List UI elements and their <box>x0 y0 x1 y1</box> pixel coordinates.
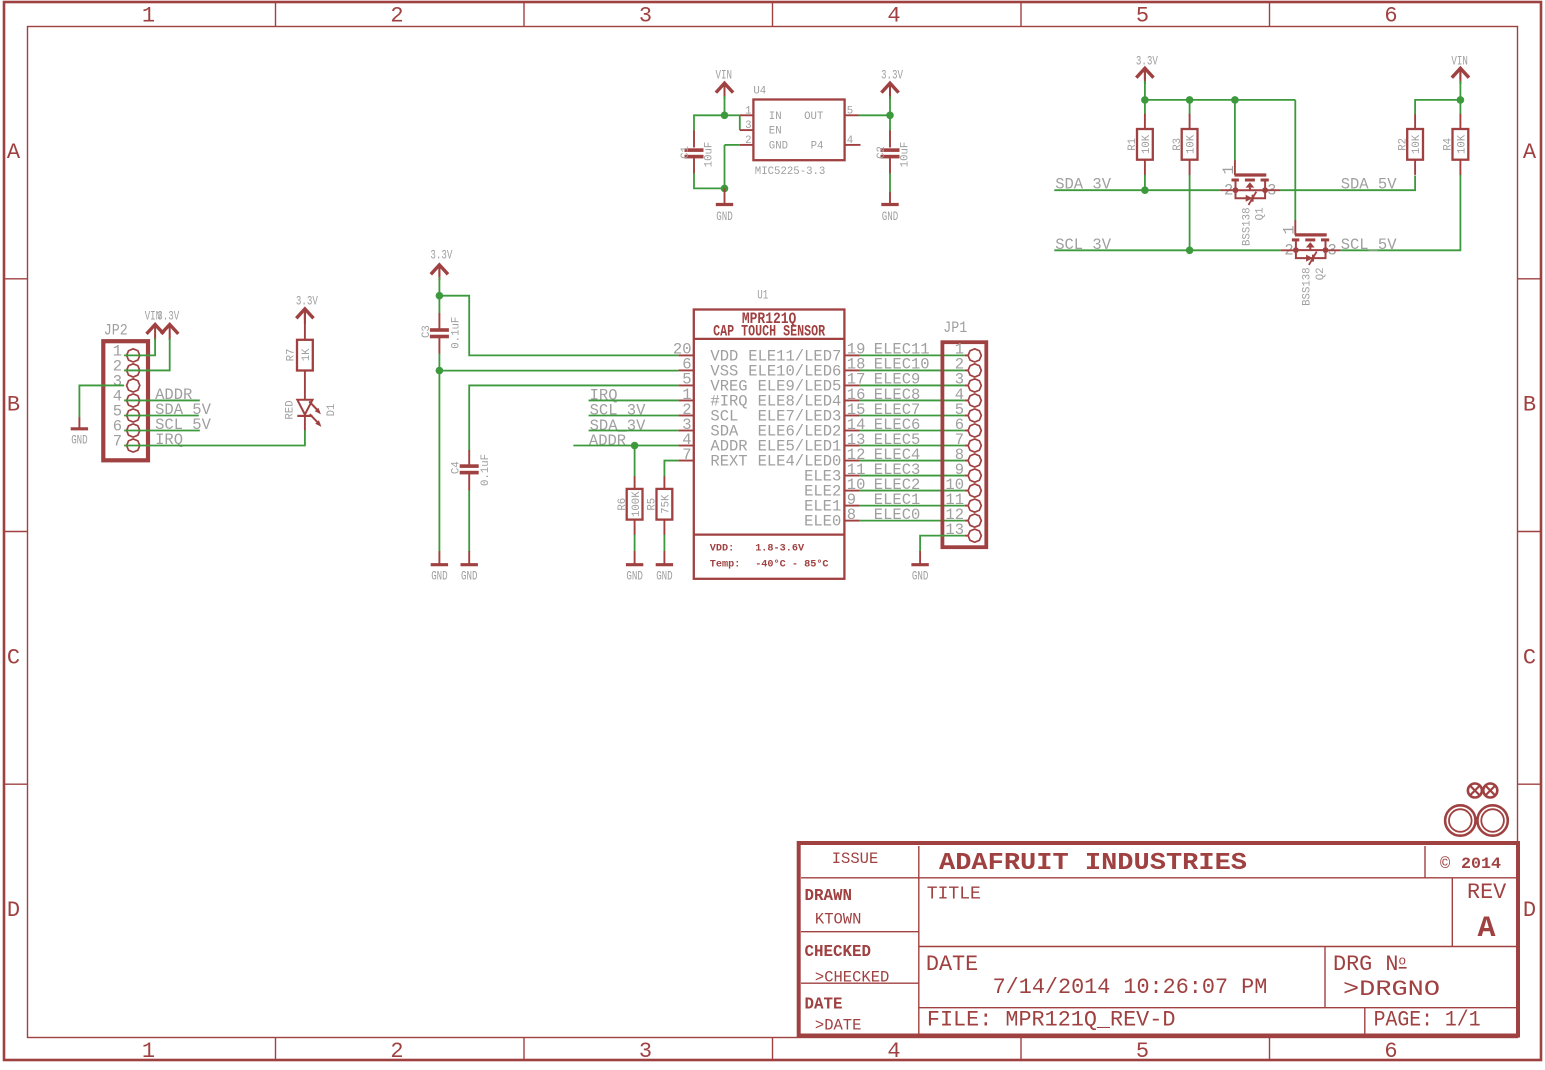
capacitor C3 pin top <box>438 313 440 329</box>
svg-text:A: A <box>1523 140 1537 165</box>
svg-text:1: 1 <box>745 105 751 117</box>
LED D1 cathode bar <box>297 415 312 417</box>
svg-text:JP2: JP2 <box>104 322 128 340</box>
JP2 pin 6 pad <box>127 424 140 437</box>
resistor R6 pin top <box>634 476 636 489</box>
JP1 pin 12 pad <box>968 514 981 527</box>
power symbol 3.3V (above C2) <box>881 83 898 92</box>
JP1 pin 8 pad <box>968 454 981 467</box>
transistor Q1 <box>1235 173 1267 176</box>
svg-text:7/14/2014 10:26:07 PM: 7/14/2014 10:26:07 PM <box>993 975 1268 1000</box>
R7 pin bottom / D1 anode lead <box>304 371 306 401</box>
svg-text:3.3V: 3.3V <box>430 249 452 263</box>
svg-text:1: 1 <box>142 1039 155 1064</box>
JP1 pin 5 lead <box>965 414 969 416</box>
svg-text:OUT: OUT <box>804 111 824 123</box>
resistor R3 <box>1182 129 1198 160</box>
svg-text:SCL_5V: SCL_5V <box>1341 236 1398 254</box>
wire SCL_3V <box>1054 249 1280 251</box>
JP1 pin 9 pad <box>968 469 981 482</box>
svg-text:10K: 10K <box>1456 134 1468 154</box>
ground pin (R6) <box>634 551 636 564</box>
svg-text:R2: R2 <box>1397 138 1409 151</box>
wire ELEC0 <box>860 520 965 522</box>
svg-text:ISSUE: ISSUE <box>832 850 879 868</box>
node 3.3V bus at Q1 gate <box>1231 96 1239 104</box>
resistor R1 <box>1137 129 1153 160</box>
svg-text:R5: R5 <box>647 498 659 511</box>
wire 3.3V arrow to bus <box>1144 81 1146 100</box>
wire R5 to ground <box>663 535 665 552</box>
U1 pin 17 lead (right) <box>844 384 859 386</box>
svg-text:1: 1 <box>1220 165 1238 174</box>
svg-text:ADAFRUIT INDUSTRIES: ADAFRUIT INDUSTRIES <box>939 850 1247 877</box>
wire R4 to SCL_5V <box>1340 175 1460 250</box>
svg-text:IN: IN <box>769 111 782 123</box>
svg-text:GND: GND <box>656 570 673 584</box>
svg-text:10K: 10K <box>1186 134 1198 154</box>
svg-text:3.3V: 3.3V <box>1136 54 1158 68</box>
wire ELEC7 <box>860 414 965 416</box>
node 3.3V bus at R3 <box>1186 96 1194 104</box>
wire JP2 pin2 to 3.3V <box>124 338 170 370</box>
svg-text:10uF: 10uF <box>704 142 716 168</box>
svg-text:4: 4 <box>887 1039 900 1064</box>
resistor R5 pin top <box>663 476 665 489</box>
Q1 source lead <box>1220 189 1235 191</box>
JP1 pin 8 lead <box>965 460 969 462</box>
capacitor C1 pin bottom <box>693 158 695 174</box>
wire U1 VREG pin 5 to C4 <box>469 385 678 450</box>
svg-text:10uF: 10uF <box>900 142 912 168</box>
power symbol 3.3V (R7) <box>296 309 313 318</box>
wire R1 to SDA_3V <box>1144 175 1146 190</box>
resistor R2 pin top <box>1414 114 1416 130</box>
U4 pin 4 lead <box>845 144 861 146</box>
JP1 pin 10 pad <box>968 484 981 497</box>
svg-text:Q1: Q1 <box>1255 208 1267 221</box>
wire R3 to SCL_3V <box>1189 175 1191 250</box>
svg-text:-40°C - 85°C: -40°C - 85°C <box>755 559 828 571</box>
svg-text:C3: C3 <box>421 325 433 338</box>
wire C1 bottom to GND node <box>694 173 725 188</box>
svg-text:3.3V: 3.3V <box>157 309 179 323</box>
U1 pin 4 lead (left) <box>679 445 694 447</box>
svg-text:10K: 10K <box>1411 134 1423 154</box>
U1 pin 10 lead (right) <box>844 490 859 492</box>
U1 pin 14 lead (right) <box>844 430 859 432</box>
U1 header divider <box>694 338 845 340</box>
svg-text:CHECKED: CHECKED <box>805 943 872 962</box>
svg-text:5: 5 <box>1136 1039 1149 1064</box>
svg-text:2: 2 <box>745 135 751 147</box>
svg-text:75K: 75K <box>661 494 673 514</box>
wire ELEC2 <box>860 490 965 492</box>
svg-text:GND: GND <box>461 570 478 584</box>
capacitor C3 pin bottom <box>438 338 440 354</box>
wire U1 REXT pin 7 to R5 <box>664 461 678 477</box>
svg-text:CAP TOUCH SENSOR: CAP TOUCH SENSOR <box>713 323 826 341</box>
svg-text:7: 7 <box>113 433 122 451</box>
svg-text:P4: P4 <box>811 140 824 152</box>
U1 pin 18 lead (right) <box>844 369 859 371</box>
svg-text:ELEC0: ELEC0 <box>874 506 921 524</box>
svg-text:DATE: DATE <box>805 995 843 1014</box>
resistor R5 pin bottom <box>663 520 665 536</box>
U1 pin 7 lead (left) <box>679 460 694 462</box>
U1 pin 2 lead (left) <box>679 414 694 416</box>
svg-text:C: C <box>1523 645 1536 670</box>
wire ELEC3 <box>860 475 965 477</box>
ground pin JP2 <box>78 417 80 428</box>
svg-text:D: D <box>7 898 20 923</box>
LED D1 light arrow 2 <box>310 414 320 424</box>
wire IRQ (U1) <box>589 399 679 401</box>
JP1 pin 12 lead <box>965 520 969 522</box>
capacitor C2 pin top <box>889 131 891 148</box>
connector JP1 body <box>942 342 986 547</box>
title block PAGE cell divider <box>1364 1008 1366 1034</box>
U4 pin 5 lead <box>845 114 859 116</box>
svg-text:GND: GND <box>769 140 788 152</box>
IC U1 body <box>694 310 845 579</box>
svg-text:ELE0: ELE0 <box>804 513 841 531</box>
title block REV cell divider <box>1451 878 1453 947</box>
U1 pin 11 lead (right) <box>844 475 859 477</box>
ground symbol (C3 net) <box>431 563 448 566</box>
JP2 pin 1 pad <box>127 349 140 362</box>
capacitor C4 pin top <box>468 450 470 465</box>
resistor R6 pin bottom <box>634 520 636 536</box>
wire SDA_5V stub (JP2) <box>124 414 199 416</box>
wire ELEC10 <box>860 369 965 371</box>
wire ELEC1 <box>860 505 965 507</box>
Q2 drain lead <box>1326 249 1341 251</box>
svg-text:TITLE: TITLE <box>927 885 981 905</box>
svg-text:B: B <box>7 393 20 418</box>
svg-text:A: A <box>7 140 21 165</box>
svg-text:1.8-3.6V: 1.8-3.6V <box>755 543 805 554</box>
svg-text:C2: C2 <box>876 146 888 159</box>
svg-text:2: 2 <box>390 4 403 29</box>
node 3.3V junction at C3 <box>436 292 444 300</box>
U1 pin 1 lead (left) <box>679 399 694 401</box>
wire VIN node to C1 top <box>694 115 725 131</box>
svg-text:1: 1 <box>1280 225 1298 234</box>
svg-text:0.1uF: 0.1uF <box>480 454 492 486</box>
wire SCL_3V (U1) <box>589 414 679 416</box>
svg-text:GND: GND <box>716 210 733 224</box>
wire 3.3V bus <box>1145 99 1295 101</box>
wire ELEC6 <box>860 430 965 432</box>
Q2 source lead <box>1281 249 1296 251</box>
title block line under DATE row <box>919 1007 1516 1009</box>
JP1 pin 7 pad <box>968 439 981 452</box>
svg-text:GND: GND <box>71 434 88 448</box>
resistor R1 pin bottom <box>1144 160 1146 176</box>
JP1 pin 2 pad <box>968 364 981 377</box>
svg-text:0.1uF: 0.1uF <box>451 317 463 349</box>
svg-text:2014: 2014 <box>1461 855 1501 873</box>
svg-text:ADDR: ADDR <box>589 432 626 450</box>
title block left column divider <box>918 846 920 1034</box>
title block outer border <box>799 843 1518 1036</box>
wire ELEC4 <box>860 460 965 462</box>
svg-text:R1: R1 <box>1127 138 1139 151</box>
resistor R4 <box>1453 129 1469 160</box>
capacitor C1 <box>685 148 704 152</box>
wire bus to R3 <box>1189 100 1191 115</box>
title block line under CHECKED cell <box>801 982 919 984</box>
svg-text:DRG N: DRG N <box>1333 952 1398 977</box>
node ADDR junction at R6 <box>631 442 639 450</box>
node VIN bus junction <box>1457 96 1465 104</box>
LED D1 light arrow 1 <box>309 401 319 412</box>
U4 pin 3 lead <box>740 129 754 131</box>
wire U4 OUT to 3.3V node <box>859 114 891 116</box>
JP2 pin 4 pad <box>127 394 140 407</box>
ground symbol under C2 <box>881 203 898 206</box>
transistor Q1 gate lead <box>1234 160 1236 175</box>
wire SDA_3V <box>1054 189 1220 191</box>
JP1 pin 3 pad <box>968 379 981 392</box>
JP1 pin 10 lead <box>965 490 969 492</box>
ground symbol under C1/U4 <box>716 203 733 206</box>
capacitor C4 <box>460 464 479 468</box>
power symbol 3.3V (JP2) <box>161 325 178 334</box>
svg-text:R4: R4 <box>1443 138 1455 151</box>
wire 3.3V bus to Q2 gate <box>1294 100 1296 221</box>
svg-text:DATE: DATE <box>926 952 978 977</box>
svg-text:5: 5 <box>1136 4 1149 29</box>
logo large circle 1 <box>1445 805 1475 835</box>
wire 3.3V node to C2 <box>889 115 891 131</box>
svg-text:7: 7 <box>682 446 691 464</box>
svg-text:B: B <box>1523 393 1536 418</box>
wire JP1 pin13 to ground <box>920 536 965 552</box>
ground pin (C3 net) <box>438 551 440 564</box>
svg-text:4: 4 <box>847 135 853 147</box>
svg-text:VDD:: VDD: <box>710 543 734 554</box>
wire C2 bottom to ground <box>889 173 891 193</box>
svg-text:KTOWN: KTOWN <box>815 911 862 929</box>
wire 3.3V bus to Q1 gate <box>1234 100 1236 161</box>
svg-text:GND: GND <box>882 210 899 224</box>
resistor R3 pin bottom <box>1189 160 1191 176</box>
wire VIN bus to R4 <box>1459 100 1461 115</box>
title block line under TITLE row <box>919 946 1516 948</box>
U1 pin 16 lead (right) <box>844 399 859 401</box>
JP2 pin 5 pad <box>127 409 140 422</box>
node VSS junction at C3 <box>436 367 444 375</box>
JP2 pin 2 pad <box>127 364 140 377</box>
svg-text:U4: U4 <box>753 86 766 98</box>
power symbol 3.3V (C3) <box>431 265 448 274</box>
svg-text:>DATE: >DATE <box>815 1017 862 1035</box>
ground symbol (R6) <box>626 563 643 566</box>
JP2 pin 7 pad <box>127 439 140 452</box>
LED D1 triangle <box>297 400 312 415</box>
wire VSS node to U1 pin 6 <box>439 370 678 372</box>
IC U4 body <box>753 100 844 161</box>
ground symbol (JP1) <box>911 563 928 566</box>
ground symbol (C4 net) <box>461 563 478 566</box>
wire 3.3V node to VDD corner <box>439 296 678 356</box>
wire VIN arrow to bus <box>1459 81 1461 100</box>
JP1 pin 6 pad <box>968 424 981 437</box>
JP1 pin 2 lead <box>965 369 969 371</box>
wire JP2 pin1 to VIN <box>124 338 155 355</box>
svg-text:R6: R6 <box>617 498 629 511</box>
svg-text:C1: C1 <box>680 146 692 159</box>
wire C3 top <box>438 296 440 314</box>
logo small circle 2 <box>1483 784 1497 798</box>
U1 pin 3 lead (left) <box>679 430 694 432</box>
wire VIN arrow to node <box>724 96 726 115</box>
resistor R4 pin top <box>1459 114 1461 130</box>
capacitor C2 <box>881 148 900 152</box>
svg-text:FILE: MPR121Q_REV-D: FILE: MPR121Q_REV-D <box>927 1008 1176 1033</box>
wire ELEC5 <box>860 445 965 447</box>
transistor Q2 gate lead <box>1294 220 1296 235</box>
wire ADDR node to R6 <box>634 446 636 477</box>
svg-text:D: D <box>1523 898 1536 923</box>
ground pin (JP1) <box>919 551 921 564</box>
JP1 pin 5 pad <box>968 409 981 422</box>
svg-text:R3: R3 <box>1172 138 1184 151</box>
JP1 pin 6 lead <box>965 430 969 432</box>
wire C4 bottom to ground <box>468 490 470 552</box>
node GND junction under U4 <box>721 185 729 193</box>
wire bus to R1 <box>1144 100 1146 115</box>
U4 pin 2 lead <box>740 144 754 146</box>
wire JP2 pin3 to GND <box>79 385 124 417</box>
U1 pin 12 lead (right) <box>844 460 859 462</box>
wire SCL_5V stub (JP2) <box>124 430 200 432</box>
U1 pin 19 lead (right) <box>844 354 859 356</box>
wire U4 EN to VIN net <box>739 115 741 130</box>
resistor R1 pin top <box>1144 114 1146 130</box>
JP1 pin 13 pad <box>968 529 981 542</box>
power symbol VIN (level shifter) <box>1452 68 1469 77</box>
U1 pin 9 lead (right) <box>844 505 859 507</box>
JP1 pin 11 lead <box>965 505 969 507</box>
power symbol VIN (above U4) <box>716 83 733 92</box>
capacitor C3 <box>430 328 449 332</box>
resistor R5 <box>657 489 673 520</box>
svg-text:EN: EN <box>769 126 782 138</box>
svg-text:3: 3 <box>745 120 751 132</box>
resistor R6 <box>627 489 643 520</box>
ground symbol JP2 <box>71 427 88 430</box>
title block copyright cell divider <box>1424 846 1426 878</box>
JP1 pin 9 lead <box>965 475 969 477</box>
R7 pin top <box>304 311 306 341</box>
svg-text:BSS138: BSS138 <box>1241 208 1253 246</box>
svg-text:1K: 1K <box>301 348 313 361</box>
resistor R4 pin bottom <box>1459 160 1461 176</box>
wire ELEC11 <box>860 354 965 356</box>
wire ADDR (U1) <box>573 445 678 447</box>
ground pin under U4 <box>724 188 726 204</box>
wire SDA_5V <box>1280 176 1415 191</box>
svg-text:Temp:: Temp: <box>710 560 741 571</box>
JP1 pin 4 pad <box>968 394 981 407</box>
resistor R2 pin bottom <box>1414 160 1416 175</box>
U1 pin 20 lead (left) <box>679 354 694 356</box>
U1 pin 5 lead (left) <box>679 384 694 386</box>
svg-text:REV: REV <box>1467 880 1506 905</box>
svg-text:8: 8 <box>847 506 856 524</box>
ground pin under C2 <box>889 192 891 204</box>
node SCL_3V at R3 <box>1186 247 1194 255</box>
LED D1 cathode lead <box>304 416 306 430</box>
svg-text:2: 2 <box>390 1039 403 1064</box>
svg-text:DRAWN: DRAWN <box>805 887 853 906</box>
connector JP2 body <box>103 341 148 460</box>
svg-text:©: © <box>1440 856 1450 875</box>
svg-text:C4: C4 <box>450 461 462 474</box>
ground pin (R5) <box>663 551 665 564</box>
JP1 pin 1 pad <box>968 349 981 362</box>
svg-text:RED: RED <box>285 400 297 419</box>
title block DRG cell divider <box>1324 947 1326 1008</box>
resistor R3 pin top <box>1189 114 1191 130</box>
svg-text:5: 5 <box>847 105 853 117</box>
resistor R7 <box>297 340 313 371</box>
svg-text:Q2: Q2 <box>1315 267 1327 280</box>
svg-text:D1: D1 <box>326 404 338 417</box>
wire VSS node down to ground <box>438 371 440 552</box>
node VIN junction at U4 pin1 <box>721 112 729 120</box>
Q1 drain lead <box>1265 189 1280 191</box>
svg-text:6: 6 <box>1384 4 1397 29</box>
wire IRQ from JP2 pin7 to D1 <box>124 430 305 446</box>
ground symbol (R5) <box>656 563 673 566</box>
JP1 pin 13 lead <box>965 535 969 537</box>
wire ADDR stub (JP2) <box>124 399 200 401</box>
wire C3 bottom to VSS node <box>438 354 440 371</box>
svg-text:1: 1 <box>142 4 155 29</box>
JP1 pin 4 lead <box>965 399 969 401</box>
wire ELEC9 <box>860 384 965 386</box>
svg-text:U1: U1 <box>757 288 768 302</box>
JP2 pin 3 pad <box>127 379 140 392</box>
wire VIN node to U4 pin 1 <box>725 114 740 116</box>
svg-text:JP1: JP1 <box>943 319 967 337</box>
wire SDA_3V (U1) <box>589 430 679 432</box>
svg-text:3.3V: 3.3V <box>881 68 903 82</box>
svg-text:PAGE: 1/1: PAGE: 1/1 <box>1374 1008 1481 1033</box>
svg-text:10K: 10K <box>1141 134 1153 154</box>
svg-text:3: 3 <box>639 1039 652 1064</box>
ground pin (C4 net) <box>468 551 470 564</box>
wire U4 GND pin to GND node <box>725 144 740 146</box>
wire R2 to VIN bus <box>1415 100 1460 115</box>
svg-text:6: 6 <box>1384 1039 1397 1064</box>
svg-text:MIC5225-3.3: MIC5225-3.3 <box>755 166 826 178</box>
U1 pin 13 lead (right) <box>844 445 859 447</box>
power symbol 3.3V (level shifter) <box>1136 68 1153 77</box>
svg-text:o: o <box>1398 954 1406 969</box>
capacitor C1 pin top <box>693 131 695 148</box>
wire 3.3V arrow down to node <box>889 96 891 115</box>
svg-text:>DRGNO: >DRGNO <box>1343 977 1440 1002</box>
node 3.3V bus at R1 <box>1141 96 1149 104</box>
JP1 pin 1 lead <box>965 354 969 356</box>
svg-text:3: 3 <box>639 4 652 29</box>
JP1 pin 11 pad <box>968 499 981 512</box>
